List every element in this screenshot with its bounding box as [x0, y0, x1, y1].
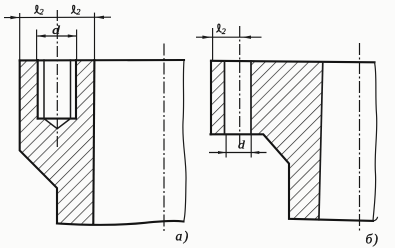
svg-text:d: d — [52, 22, 60, 37]
svg-text:2: 2 — [76, 8, 80, 17]
svg-text:2: 2 — [40, 8, 44, 17]
svg-text:б): б) — [366, 232, 380, 247]
svg-text:d: d — [238, 137, 246, 151]
svg-text:2: 2 — [222, 27, 226, 36]
svg-text:а): а) — [176, 228, 190, 243]
